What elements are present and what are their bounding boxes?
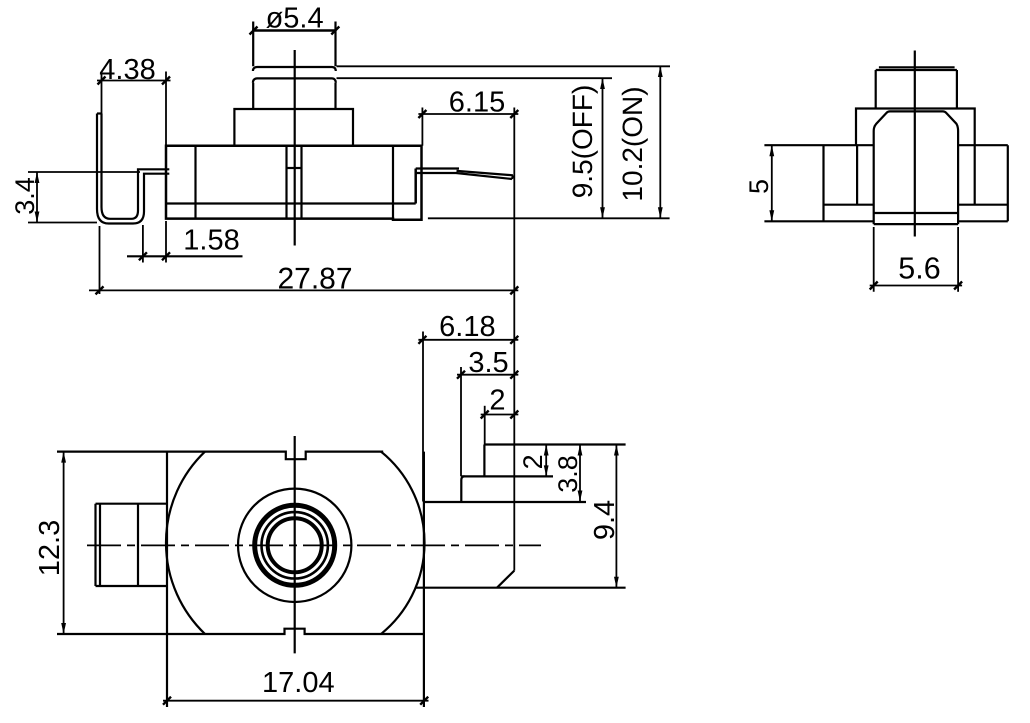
svg-text:9.5(OFF): 9.5(OFF): [567, 85, 598, 199]
side central body chamfered top: [874, 111, 958, 131]
svg-text:2: 2: [518, 454, 548, 469]
plunger cap top edge: [252, 29, 336, 32]
dimension 2 horizontal extension left: [484, 406, 486, 445]
OFF reference line: [337, 77, 613, 79]
plan right arc: [381, 452, 425, 634]
center slot bar: [287, 167, 302, 169]
tail step2 vertical: [483, 445, 485, 477]
body inner wall right: [392, 146, 394, 220]
dimension 3.4 arrow up: [35, 172, 40, 183]
svg-text:3.5: 3.5: [468, 347, 508, 379]
dimension 6.15 extension left: [421, 108, 423, 146]
dimension 2 horizontal ticks: [481, 411, 519, 419]
body inner bottom: [166, 202, 416, 204]
plan left protrusion outer edge: [94, 504, 96, 586]
dimension 4.38 extension right: [165, 72, 167, 146]
dimension 3.8 arrow up: [578, 445, 583, 456]
side central body sides: [874, 131, 958, 224]
side right wing inner wall: [974, 145, 976, 205]
svg-text:12.3: 12.3: [34, 520, 66, 576]
dimension 1.58 extension right: [165, 221, 167, 263]
dimension 1.58 line: [127, 255, 243, 257]
plan circle ring thick: [255, 505, 335, 585]
svg-text:3.4: 3.4: [10, 177, 40, 215]
side right wing outer: [1007, 145, 1009, 221]
dimension 5.6 extension left: [873, 227, 875, 292]
side right wing inner bottom: [958, 204, 1008, 206]
svg-text:5: 5: [744, 179, 774, 194]
dimension 6.18 extension left: [422, 332, 424, 502]
plan left protrusion bottom: [96, 585, 168, 587]
side collar: [856, 109, 975, 146]
side left wing top (with 5-dim extension): [764, 144, 873, 146]
side left wing inner wall: [856, 145, 858, 205]
tail top line with extension: [484, 443, 625, 445]
dimension 1.58 ticks: [139, 252, 170, 260]
dimension 10.2(ON) line: [659, 66, 661, 218]
side right wing top: [958, 144, 1008, 146]
side left wing outer: [822, 145, 824, 221]
dimension 6.15 ticks: [418, 110, 518, 118]
side plunger cap outer top: [876, 69, 957, 71]
dimension 2 horizontal line: [481, 414, 519, 416]
plan left protrusion top: [96, 503, 168, 505]
plan left tangent edge and 17.04 extension: [166, 452, 168, 707]
dimension 4.38 ticks: [98, 77, 171, 85]
dimension 2 vertical line: [545, 445, 547, 477]
tail bottom line with extension: [416, 587, 626, 589]
body inner wall left: [194, 146, 196, 219]
dimension 4.38 extension left: [101, 72, 103, 114]
dimension 6.18 line: [418, 339, 518, 341]
dimension 3.5 extension left: [460, 367, 462, 476]
dimension 5 arrow up: [769, 145, 774, 156]
plan top edge with notch: [57, 452, 383, 460]
baseline extension right: [428, 217, 670, 219]
plan bottom edge with notch: [57, 629, 425, 634]
dimension 27.87 ticks: [96, 286, 519, 294]
dimension 4.38 line: [97, 80, 171, 82]
long extension line right: [513, 108, 515, 571]
dimension 9.5(OFF) line: [602, 78, 604, 218]
dimension 3.5 line: [457, 374, 518, 376]
dimension 1.58 extension left: [142, 225, 144, 263]
plunger ring lower line: [253, 78, 336, 82]
side central body bottom: [874, 223, 958, 225]
center axis front view: [294, 50, 296, 246]
dimension 2 vertical arrow up: [544, 445, 549, 456]
plunger ring upper line: [253, 67, 336, 71]
ON reference line: [337, 65, 671, 67]
left terminal J-hook inner: [102, 114, 170, 219]
dimension 3.4 extension bottom: [28, 222, 97, 224]
dimension 27.87 extension left: [99, 226, 101, 294]
side plunger cap inner top: [879, 66, 955, 68]
dimension 12.3 line: [63, 452, 65, 634]
side left wing bottom (with 5-dim extension): [764, 220, 873, 222]
plan vertical centerline: [294, 436, 296, 653]
dimension 5.6 extension right: [957, 227, 959, 292]
collar front view: [234, 109, 353, 146]
svg-text:1.58: 1.58: [183, 225, 239, 257]
svg-text:6.18: 6.18: [439, 311, 495, 343]
tail chamfer: [497, 571, 514, 588]
body outline front view: [166, 146, 422, 220]
svg-text:17.04: 17.04: [262, 667, 335, 699]
dimension 3.4 extension top: [28, 171, 140, 173]
dimension 10.2(ON) arrow up: [658, 66, 663, 77]
svg-text:9.4: 9.4: [589, 500, 621, 540]
side view center axis: [914, 51, 916, 237]
dimension 3.8 arrow down: [578, 491, 583, 502]
right terminal upturn: [414, 169, 417, 204]
dimension 9.4 arrow up: [614, 445, 619, 456]
center slot left: [285, 146, 287, 219]
dimension 9.5(OFF) arrow down: [600, 207, 605, 218]
plan horizontal centerline dash-dot: [87, 544, 541, 546]
right terminal lower line: [416, 173, 512, 179]
dimension 9.4 arrow down: [614, 577, 619, 588]
plan left arc: [166, 452, 205, 634]
left terminal top cap: [97, 112, 102, 114]
tail step3 vertical: [461, 476, 464, 502]
left terminal J-hook outer: [97, 114, 169, 224]
dimension 17.04 ticks: [163, 697, 428, 705]
center slot right: [300, 146, 302, 219]
plunger cap sides: [253, 22, 335, 67]
svg-text:27.87: 27.87: [277, 263, 352, 296]
dimension 10.2(ON) arrow down: [658, 207, 663, 218]
svg-text:3.8: 3.8: [553, 455, 583, 493]
dimension 9.4 line: [615, 445, 617, 588]
svg-text:2: 2: [489, 385, 505, 417]
dimension 6.18 ticks: [418, 336, 518, 344]
svg-text:5.6: 5.6: [898, 252, 940, 286]
dimension 5.6 line: [870, 285, 962, 287]
dimension 3.5 ticks: [457, 371, 518, 379]
side plunger sides: [876, 70, 957, 109]
dimension 3.4 line: [36, 172, 38, 223]
plan left protrusion inner wall: [137, 504, 139, 586]
plan circle inner thick: [268, 518, 322, 572]
side right wing bottom: [958, 220, 1008, 222]
dimension 12.3 arrow down: [61, 623, 66, 634]
plan right tangent edge and 17.04 extension: [423, 452, 425, 707]
right terminal upper line: [416, 169, 513, 176]
dimension 5 line: [771, 145, 773, 221]
dimension 5 arrow down: [769, 210, 774, 221]
side central body inner bottom: [874, 212, 958, 214]
svg-text:6.15: 6.15: [449, 87, 505, 119]
dimension 6.15 line: [418, 113, 518, 115]
dimension 27.87 line: [89, 289, 518, 291]
dimension ø5.4 ticks: [250, 27, 340, 35]
side left wing inner bottom: [824, 204, 874, 206]
right terminal tip: [512, 175, 513, 179]
plan circle middle: [262, 512, 328, 578]
tail step2 line: [461, 475, 553, 477]
svg-text:4.38: 4.38: [99, 54, 155, 86]
dimension 5.6 ticks: [870, 282, 962, 290]
plunger lower sides: [253, 83, 335, 110]
dimension 17.04 line: [163, 700, 429, 702]
dimension 3.8 vertical line: [579, 445, 581, 502]
svg-text:10.2(ON): 10.2(ON): [617, 86, 648, 201]
plan left protrusion inner edge line: [99, 504, 101, 586]
dimension 3.4 arrow down: [35, 212, 40, 223]
dimension 9.5(OFF) arrow up: [600, 78, 605, 89]
dimension 12.3 arrow up: [61, 452, 66, 463]
tail step3 line: [423, 501, 586, 503]
svg-text:ø5.4: ø5.4: [266, 3, 324, 35]
dimension 2 vertical arrow down: [544, 465, 549, 476]
plan circle outer: [238, 489, 351, 602]
